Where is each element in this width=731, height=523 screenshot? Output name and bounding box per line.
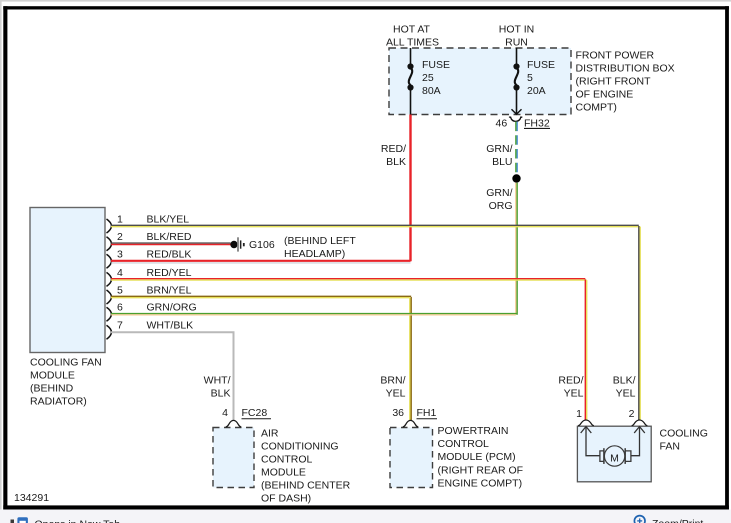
- svg-text:1: 1: [117, 213, 123, 225]
- module pin 3 connector: [107, 254, 112, 268]
- wire RED/BLK pin3 to fuse 25 column: [111, 261, 411, 263]
- svg-text:HOT IN: HOT IN: [499, 24, 534, 36]
- svg-text:CONTROL: CONTROL: [261, 454, 312, 466]
- toolbar icon new tab: [17, 517, 28, 523]
- svg-text:2: 2: [629, 408, 635, 420]
- connector arc PCM pin 36: [403, 420, 419, 427]
- wire GRN/BLU dashed from FH32 to junction: [516, 122, 517, 175]
- svg-text:GRN/: GRN/: [486, 143, 512, 155]
- svg-text:BLU: BLU: [492, 156, 512, 168]
- wire BLK/YEL pin1 to cooling fan pin2: [111, 225, 640, 420]
- svg-text:COOLING FAN: COOLING FAN: [30, 357, 102, 369]
- zoom icon: [634, 516, 645, 523]
- svg-text:(RIGHT REAR OF: (RIGHT REAR OF: [438, 464, 524, 476]
- svg-text:3: 3: [117, 249, 123, 261]
- motor M: [604, 446, 624, 466]
- svg-text:ENGINE COMPT): ENGINE COMPT): [438, 478, 523, 490]
- svg-text:POWERTRAIN: POWERTRAIN: [438, 425, 509, 437]
- svg-text:RADIATOR): RADIATOR): [30, 396, 87, 408]
- browser edge shading top: [0, 0, 731, 2]
- svg-text:(RIGHT FRONT: (RIGHT FRONT: [576, 76, 652, 88]
- svg-text:M: M: [610, 452, 619, 464]
- svg-text:ORG: ORG: [489, 200, 513, 212]
- svg-text:FH1: FH1: [417, 407, 437, 419]
- module pin 7 connector: [107, 325, 112, 339]
- svg-text:BLK: BLK: [211, 388, 231, 400]
- toolbar icon pin: [11, 520, 15, 523]
- browser edge shading left: [0, 0, 2, 523]
- svg-text:FUSE: FUSE: [527, 59, 555, 71]
- fan internal arrow left: [581, 427, 600, 456]
- svg-text:WHT/: WHT/: [204, 375, 231, 387]
- module pin 2 connector: [107, 237, 112, 251]
- svg-text:YEL: YEL: [616, 388, 636, 400]
- junction node: [512, 174, 520, 182]
- svg-text:AIR: AIR: [261, 428, 279, 440]
- svg-text:FC28: FC28: [242, 407, 268, 419]
- svg-text:2: 2: [117, 231, 123, 243]
- wire RED/BLK vertical from fuse 25: [409, 115, 411, 262]
- connector arc fan pin 1: [578, 420, 594, 426]
- AC control module box: [213, 428, 254, 488]
- svg-text:RED/BLK: RED/BLK: [147, 249, 192, 261]
- wire WHT/BLK pin7 to AC module pin4: [111, 332, 234, 420]
- svg-text:46: 46: [496, 118, 508, 130]
- svg-text:BLK/RED: BLK/RED: [147, 231, 192, 243]
- connector FH32 cup: [509, 117, 522, 122]
- svg-text:RED/YEL: RED/YEL: [147, 267, 192, 279]
- svg-text:5: 5: [527, 72, 533, 84]
- svg-text:7: 7: [117, 320, 123, 332]
- svg-text:HEADLAMP): HEADLAMP): [284, 248, 345, 260]
- svg-text:BLK/YEL: BLK/YEL: [147, 213, 190, 225]
- svg-text:(BEHIND CENTER: (BEHIND CENTER: [261, 480, 351, 492]
- module pin 5 connector: [107, 290, 112, 304]
- svg-text:ALL TIMES: ALL TIMES: [386, 37, 439, 49]
- svg-text:CONDITIONING: CONDITIONING: [261, 441, 339, 453]
- svg-text:Opens in New Tab: Opens in New Tab: [35, 519, 121, 523]
- connector arc fan pin 2: [632, 420, 648, 426]
- svg-text:4: 4: [222, 407, 228, 419]
- svg-text:YEL: YEL: [564, 388, 584, 400]
- svg-text:134291: 134291: [14, 492, 49, 504]
- svg-text:MODULE: MODULE: [261, 467, 306, 479]
- svg-text:(BEHIND LEFT: (BEHIND LEFT: [284, 235, 356, 247]
- wire GRN/ORG pin6 to junction column: [111, 314, 517, 315]
- svg-text:RUN: RUN: [505, 37, 528, 49]
- svg-text:RED/: RED/: [558, 375, 583, 387]
- bottom toolbar strip: [0, 510, 731, 523]
- svg-text:WHT/BLK: WHT/BLK: [147, 320, 194, 332]
- svg-text:DISTRIBUTION BOX: DISTRIBUTION BOX: [576, 63, 675, 75]
- svg-text:HOT AT: HOT AT: [393, 24, 431, 36]
- svg-text:COMPT): COMPT): [576, 102, 617, 114]
- ground G106: [230, 241, 237, 248]
- svg-text:BLK: BLK: [386, 156, 406, 168]
- connector arc AC pin 4: [226, 420, 242, 427]
- svg-text:Zoom/Print: Zoom/Print: [652, 518, 703, 523]
- svg-text:80A: 80A: [422, 85, 441, 97]
- module pin 4 connector: [107, 272, 112, 286]
- svg-text:4: 4: [117, 267, 123, 279]
- svg-text:BRN/: BRN/: [380, 375, 405, 387]
- module pin 1 connector: [107, 219, 112, 233]
- svg-text:36: 36: [392, 407, 404, 419]
- svg-text:1: 1: [576, 408, 582, 420]
- fuse box: front power distribution box: [389, 48, 571, 115]
- svg-text:OF DASH): OF DASH): [261, 493, 311, 505]
- svg-text:FRONT POWER: FRONT POWER: [576, 50, 655, 62]
- fuse F5 20A: [515, 48, 518, 114]
- arrow into connector FH32: [512, 109, 522, 114]
- svg-text:(BEHIND: (BEHIND: [30, 383, 74, 395]
- fan internal arrow right: [631, 427, 645, 456]
- svg-text:GRN/: GRN/: [486, 187, 512, 199]
- wire GRN/ORG vertical junction to pin6 wire: [515, 183, 517, 315]
- svg-text:25: 25: [422, 72, 434, 84]
- module pin 6 connector: [107, 307, 112, 321]
- PCM box: [390, 428, 433, 488]
- svg-text:OF ENGINE: OF ENGINE: [576, 89, 634, 101]
- svg-text:5: 5: [117, 284, 123, 296]
- svg-text:MODULE (PCM): MODULE (PCM): [438, 451, 516, 463]
- cooling fan module box: [30, 208, 105, 353]
- svg-text:MODULE: MODULE: [30, 370, 75, 382]
- svg-text:20A: 20A: [527, 85, 546, 97]
- wire BRN/YEL pin5 to PCM pin36: [111, 296, 411, 420]
- svg-text:FAN: FAN: [660, 440, 680, 452]
- svg-text:6: 6: [117, 302, 123, 314]
- svg-text:BLK/: BLK/: [613, 375, 636, 387]
- svg-text:FH32: FH32: [524, 118, 550, 130]
- svg-text:G106: G106: [249, 239, 275, 251]
- fuse F25 80A: [409, 48, 412, 115]
- svg-text:GRN/ORG: GRN/ORG: [147, 302, 197, 314]
- svg-text:YEL: YEL: [386, 388, 406, 400]
- svg-text:BRN/YEL: BRN/YEL: [147, 284, 192, 296]
- svg-text:FUSE: FUSE: [422, 59, 450, 71]
- cooling fan box: [577, 426, 651, 482]
- wire BLK/RED pin2 to ground G106: [111, 243, 231, 244]
- svg-text:CONTROL: CONTROL: [438, 438, 489, 450]
- svg-text:RED/: RED/: [381, 143, 406, 155]
- svg-text:COOLING: COOLING: [660, 427, 708, 439]
- wire RED/YEL pin4 to cooling fan pin1: [111, 279, 587, 421]
